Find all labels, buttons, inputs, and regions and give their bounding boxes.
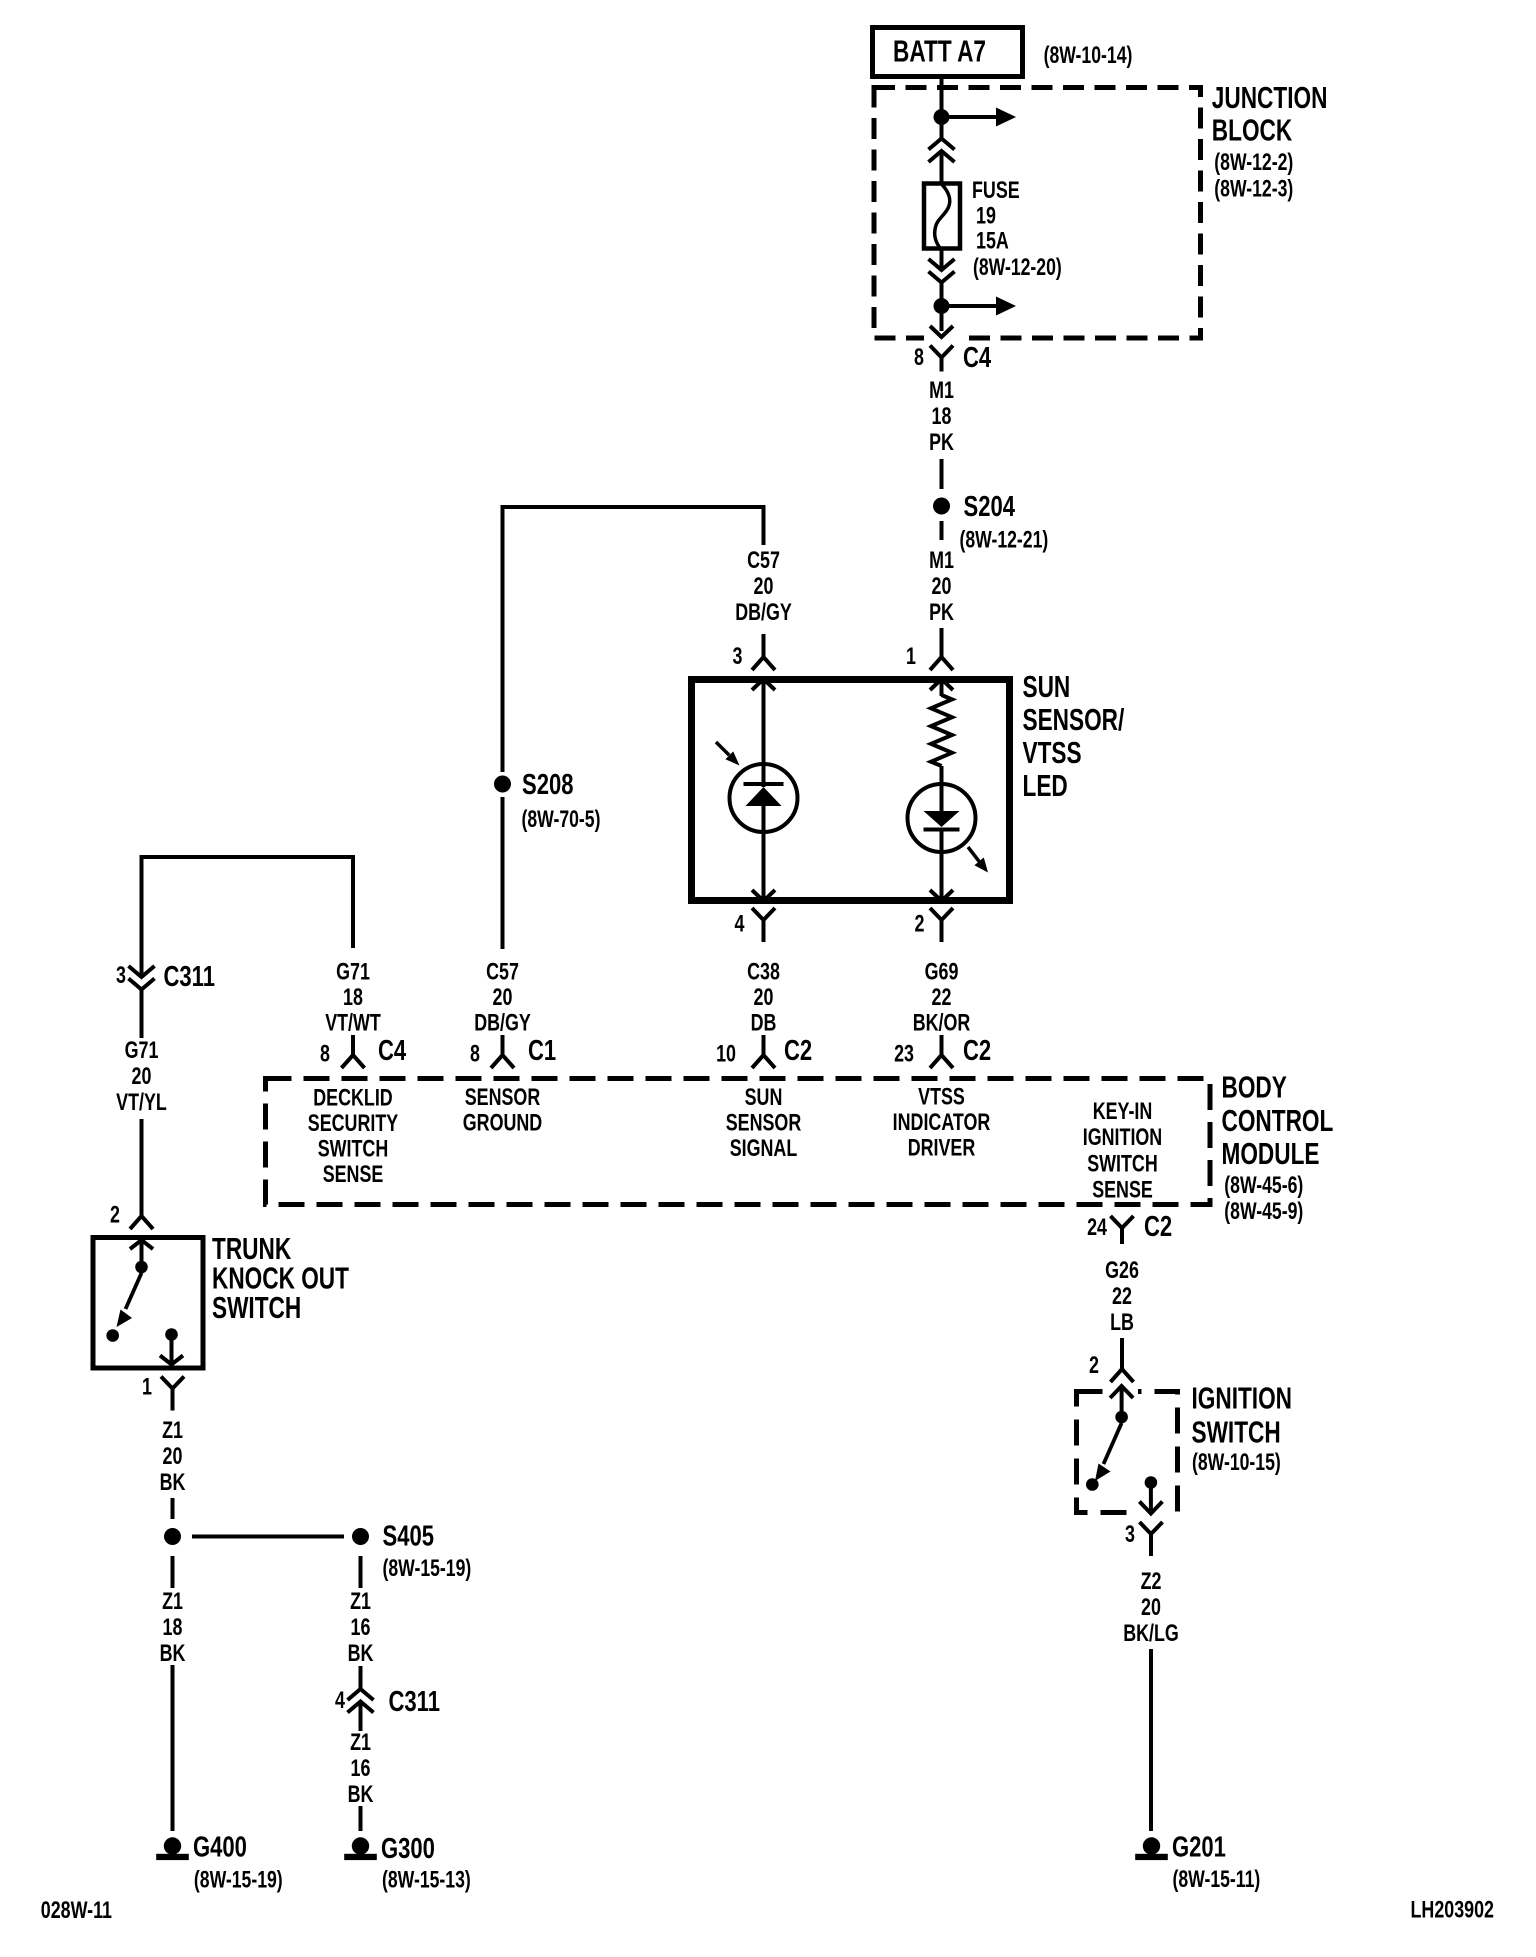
wire [140,990,144,1039]
splice S208 [494,776,511,793]
svg-text:C57: C57 [486,958,519,985]
svg-text:18: 18 [343,983,363,1010]
svg-text:GROUND: GROUND [463,1109,542,1136]
ignition switch (dashed box) [1077,1392,1178,1513]
svg-text:4: 4 [735,910,745,937]
svg-text:20: 20 [1141,1593,1161,1620]
svg-text:BK/OR: BK/OR [913,1009,971,1036]
svg-text:4: 4 [335,1686,345,1713]
wire [501,1035,505,1056]
wire [171,1498,175,1519]
svg-text:BK: BK [160,1639,186,1666]
connector C4 symbol [930,346,953,372]
wire [940,1035,944,1056]
splice dot in junction block (lower) [934,298,950,314]
splice S405 [352,1528,369,1545]
svg-text:BK: BK [348,1780,374,1807]
inline connector double chevron up [929,139,955,150]
wire down to S208 [501,505,505,772]
svg-text:FUSE: FUSE [972,176,1020,203]
resistor R1 [931,695,952,766]
svg-text:1: 1 [906,642,916,669]
svg-text:3: 3 [1125,1520,1135,1547]
svg-text:SWITCH: SWITCH [318,1135,388,1162]
ignition switch movable arm [1104,1423,1122,1464]
svg-text:BODY: BODY [1222,1069,1287,1104]
wire [359,1666,363,1689]
trunk switch movable arm [126,1273,142,1309]
wire [762,1035,766,1056]
svg-text:C2: C2 [963,1035,991,1067]
svg-text:20: 20 [754,572,774,599]
svg-text:23: 23 [894,1040,914,1067]
svg-text:BLOCK: BLOCK [1212,112,1293,147]
ground G201 [1143,1837,1160,1854]
svg-text:SENSOR/: SENSOR/ [1023,701,1125,736]
svg-text:S405: S405 [383,1521,434,1553]
svg-text:C4: C4 [963,342,992,374]
svg-text:1: 1 [142,1373,152,1400]
svg-text:3: 3 [116,961,126,988]
svg-text:MODULE: MODULE [1222,1135,1320,1170]
svg-text:IGNITION: IGNITION [1192,1380,1293,1415]
svg-text:DECKLID: DECKLID [313,1084,392,1111]
light arrow into photodiode [716,742,729,755]
trunk switch terminal arrow top [130,1240,153,1249]
junction block (dashed box) [874,88,1201,339]
svg-text:G71: G71 [125,1036,159,1063]
splice dot in junction block [934,109,950,125]
svg-text:SUN: SUN [1023,668,1071,703]
feed arrow right (top) [942,115,997,119]
arrow at junction block exit [924,331,959,343]
splice S204 [933,498,950,515]
svg-text:C57: C57 [747,546,780,573]
wire [762,634,766,657]
wire G71 horizontal [142,855,354,859]
photodiode D1 [730,764,798,832]
light arrow out of LED [968,847,980,862]
svg-text:S208: S208 [522,769,573,801]
wire [359,1702,363,1732]
svg-text:LED: LED [1023,767,1068,802]
svg-text:M1: M1 [929,376,954,403]
svg-text:Z1: Z1 [350,1587,371,1614]
wire [940,521,944,540]
ignition switch contact (right) [1145,1476,1158,1489]
wire [140,1119,144,1216]
svg-text:G300: G300 [381,1833,435,1865]
svg-text:VTSS: VTSS [918,1083,965,1110]
wire [351,1035,355,1056]
svg-text:20: 20 [932,572,952,599]
svg-text:G26: G26 [1105,1256,1139,1283]
svg-text:8: 8 [914,343,924,370]
svg-text:(8W-45-6): (8W-45-6) [1224,1171,1303,1199]
wire to S405 [192,1535,344,1539]
body control module (dashed box) [266,1079,1211,1205]
svg-text:(8W-10-15): (8W-10-15) [1192,1448,1281,1476]
svg-text:G201: G201 [1172,1832,1226,1864]
wire to junction block edge [940,313,944,336]
svg-text:SIGNAL: SIGNAL [730,1134,798,1161]
svg-text:INDICATOR: INDICATOR [893,1108,991,1135]
wire [171,1556,175,1588]
ground G400 [164,1837,181,1854]
trunk knock out switch box [93,1238,203,1369]
svg-text:16: 16 [351,1613,371,1640]
svg-text:Z1: Z1 [162,1587,183,1614]
svg-text:(8W-12-2): (8W-12-2) [1214,148,1293,176]
svg-text:DB: DB [751,1009,777,1036]
wire [940,124,944,139]
svg-text:16: 16 [351,1754,371,1781]
svg-text:SENSOR: SENSOR [465,1083,541,1110]
svg-text:20: 20 [163,1442,183,1469]
svg-text:C4: C4 [378,1035,407,1067]
svg-text:SUN: SUN [745,1083,783,1110]
wire [1120,1338,1124,1369]
svg-text:C2: C2 [1144,1211,1172,1243]
wire [940,248,944,270]
svg-text:PK: PK [929,428,954,455]
svg-text:24: 24 [1087,1213,1107,1240]
svg-text:DB/GY: DB/GY [474,1009,531,1036]
svg-text:10: 10 [716,1040,736,1067]
wire [359,1556,363,1588]
terminal arrow pin2 inside [930,890,953,901]
wire [501,797,505,949]
svg-text:SWITCH: SWITCH [1087,1150,1157,1177]
svg-text:18: 18 [163,1613,183,1640]
inline connector double chevron down [929,259,955,270]
svg-text:C1: C1 [528,1035,556,1067]
svg-text:15A: 15A [976,227,1009,254]
VTSS LED D2 [908,784,976,852]
svg-text:SWITCH: SWITCH [212,1290,301,1325]
svg-text:20: 20 [493,983,513,1010]
wire [940,459,944,489]
trunk switch terminal arrow bottom [160,1356,183,1365]
svg-text:G400: G400 [193,1832,247,1864]
svg-text:2: 2 [110,1201,120,1228]
svg-text:(8W-12-3): (8W-12-3) [1214,175,1293,203]
svg-text:LH203902: LH203902 [1411,1896,1495,1923]
svg-text:BK: BK [160,1468,186,1495]
svg-text:(8W-15-19): (8W-15-19) [383,1554,472,1582]
battery feed box BATT A7 [873,28,1023,77]
svg-text:(8W-12-20): (8W-12-20) [973,253,1062,281]
svg-text:S204: S204 [964,491,1016,523]
trunk switch common contact [135,1261,148,1274]
svg-text:BK/LG: BK/LG [1123,1619,1179,1646]
svg-text:SECURITY: SECURITY [308,1109,398,1136]
wire [940,628,944,657]
svg-text:8: 8 [320,1040,330,1067]
svg-text:VTSS: VTSS [1023,734,1082,769]
wire inside left lower [762,806,766,901]
svg-text:8: 8 [470,1040,480,1067]
svg-text:20: 20 [132,1062,152,1089]
wire [940,152,944,185]
wire inside left [762,679,766,787]
svg-text:VT/YL: VT/YL [116,1088,167,1115]
wire [940,766,944,811]
svg-text:(8W-70-5): (8W-70-5) [522,805,601,833]
splice junction [164,1528,181,1545]
svg-text:C311: C311 [164,961,215,993]
sun sensor / VTSS LED box [692,680,1010,901]
svg-text:2: 2 [1089,1351,1099,1378]
svg-text:LB: LB [1110,1308,1134,1335]
feed arrow right (bottom) [942,304,997,308]
trunk switch contact (right) [165,1328,178,1341]
svg-text:C38: C38 [747,958,780,985]
svg-text:(8W-15-11): (8W-15-11) [1173,1865,1261,1893]
svg-text:C311: C311 [389,1686,440,1718]
svg-text:22: 22 [932,983,952,1010]
svg-text:3: 3 [733,642,743,669]
terminal arrow pin3 inside [752,679,775,690]
svg-text:BATT A7: BATT A7 [893,33,986,68]
wire [762,505,766,545]
svg-text:(8W-15-19): (8W-15-19) [194,1866,283,1894]
wire inside right lower [940,830,944,901]
svg-text:18: 18 [932,402,952,429]
svg-text:C2: C2 [784,1035,812,1067]
svg-text:SENSE: SENSE [323,1160,384,1187]
svg-text:19: 19 [976,202,996,229]
svg-text:SENSE: SENSE [1092,1176,1153,1203]
svg-text:(8W-12-21): (8W-12-21) [960,526,1049,554]
wire to G300 [359,1806,363,1831]
trunk switch contact (left) [106,1329,119,1342]
wire [351,855,355,948]
wire from BATT A7 down [940,79,944,113]
wire inside right [940,679,944,696]
svg-text:BK: BK [348,1639,374,1666]
svg-text:(8W-15-13): (8W-15-13) [382,1866,471,1894]
svg-text:IGNITION: IGNITION [1083,1123,1162,1150]
svg-text:028W-11: 028W-11 [41,1896,112,1923]
svg-text:G69: G69 [925,958,959,985]
svg-text:Z1: Z1 [162,1416,183,1443]
terminal arrow pin1 inside [930,679,953,690]
wire [940,283,944,300]
svg-text:CONTROL: CONTROL [1222,1103,1334,1138]
svg-text:VT/WT: VT/WT [325,1009,381,1036]
svg-text:PK: PK [929,598,954,625]
ground G300 [352,1837,369,1854]
wire to G400 [171,1665,175,1831]
ignition switch common contact [1115,1411,1128,1424]
svg-text:DB/GY: DB/GY [735,598,792,625]
svg-text:2: 2 [915,910,925,937]
svg-text:22: 22 [1112,1282,1132,1309]
svg-text:SWITCH: SWITCH [1192,1414,1281,1449]
svg-text:SENSOR: SENSOR [726,1109,802,1136]
ignition switch contact (left) [1086,1478,1099,1491]
svg-text:(8W-45-9): (8W-45-9) [1224,1197,1303,1225]
ignition switch terminal arrow bottom [1139,1502,1162,1514]
svg-text:M1: M1 [929,546,954,573]
wire to G201 [1149,1649,1153,1831]
svg-text:JUNCTION: JUNCTION [1212,80,1328,115]
terminal arrow pin4 inside [752,890,775,901]
svg-text:G71: G71 [336,958,370,985]
wire C57 horizontal [503,505,764,509]
svg-text:Z1: Z1 [350,1728,371,1755]
svg-text:Z2: Z2 [1141,1567,1162,1594]
svg-text:DRIVER: DRIVER [908,1134,976,1161]
svg-text:20: 20 [754,983,774,1010]
svg-text:KEY-IN: KEY-IN [1093,1097,1153,1124]
ignition switch terminal arrow top [1110,1386,1133,1398]
wire down from corner [140,855,144,977]
fuse 19 15A [924,184,960,249]
svg-text:(8W-10-14): (8W-10-14) [1044,41,1133,69]
